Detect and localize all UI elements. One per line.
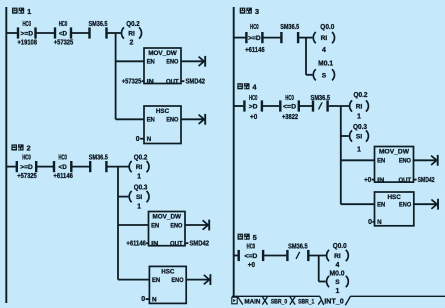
svg-text:+19108: +19108 — [18, 40, 38, 47]
svg-text:M0.0: M0.0 — [330, 270, 345, 277]
svg-text:M0.1: M0.1 — [318, 60, 333, 67]
svg-text:HC0: HC0 — [247, 244, 256, 251]
svg-text:SI: SI — [136, 194, 142, 201]
net2 wire to HSC EN — [118, 279, 149, 281]
net5 wire c1-c2 — [264, 255, 286, 257]
net1 branch vertical — [115, 33, 117, 119]
net4 wire to MOV_DW EN — [341, 159, 375, 161]
svg-text:EN: EN — [152, 277, 160, 284]
net2 wire to SI coil — [118, 196, 128, 198]
net1 wire c1-c2 — [37, 32, 55, 34]
coil Q0.3 (SI) 1 (net2) — [129, 184, 149, 210]
svg-text:IN: IN — [147, 79, 154, 86]
svg-text:1: 1 — [357, 147, 361, 154]
tab divider MAIN/SBR_0 — [262, 297, 267, 305]
contact HC0 <D +61146 (net2) — [53, 154, 73, 180]
svg-text:1: 1 — [335, 288, 339, 295]
svg-text:>=D: >=D — [248, 35, 261, 42]
svg-text:SMD42: SMD42 — [186, 78, 206, 85]
svg-text:HC0: HC0 — [249, 95, 258, 102]
svg-text:ENO: ENO — [166, 117, 178, 124]
net4 wire c2-c3 — [300, 105, 312, 107]
svg-text:+0: +0 — [250, 114, 257, 121]
net3 wire c2-coil — [299, 37, 312, 39]
coil M0.0 (S) 1 (net5) — [327, 276, 349, 295]
contact SM36.5 (net1) — [89, 21, 108, 39]
tab divider SBR_1/INT_0 — [318, 296, 324, 305]
jump arrow net1 MOV_DW ENO — [181, 56, 205, 67]
svg-text:SM36.5: SM36.5 — [288, 244, 308, 251]
contact HC0 >D +0 (net4) — [244, 95, 262, 121]
svg-text:Q0.0: Q0.0 — [333, 243, 347, 250]
svg-text:EN: EN — [147, 59, 155, 66]
net4 wire c1-c2 — [263, 105, 279, 107]
left power rail — [5, 7, 7, 303]
svg-text:S: S — [322, 72, 327, 79]
svg-text:2: 2 — [27, 144, 31, 153]
net1 wire to HSC EN — [116, 118, 144, 120]
contact HC0 >=D +19108 (net1) — [18, 21, 38, 47]
coil M0.1 (S) (net3) — [313, 69, 334, 80]
svg-text:0: 0 — [368, 219, 372, 226]
svg-text:EN: EN — [377, 158, 385, 165]
svg-text:1: 1 — [137, 203, 141, 210]
net4 branch vertical — [340, 106, 342, 204]
svg-text:ENO: ENO — [399, 202, 411, 209]
net1 wire to MOV_DW EN — [116, 60, 144, 62]
svg-text:N: N — [147, 136, 152, 143]
svg-text:RI: RI — [356, 104, 363, 111]
svg-text:MAIN: MAIN — [244, 299, 260, 306]
contact SM36.5 (net2) — [89, 154, 108, 172]
net1 wire c3-coil — [108, 32, 121, 34]
jump arrow net4 MOV_DW ENO — [414, 155, 438, 166]
net5 wire to S coil — [319, 281, 326, 283]
box HSC (net2) — [149, 266, 186, 303]
svg-text:IN: IN — [377, 177, 384, 184]
net2 wire c1-c2 — [37, 166, 53, 168]
svg-text:+61146: +61146 — [126, 240, 146, 247]
contact HC0 >=D +57325 (net2) — [17, 154, 37, 180]
svg-text:1: 1 — [27, 7, 31, 16]
svg-text:<D: <D — [59, 164, 67, 171]
network 5 label 网络 5 — [238, 233, 257, 242]
net3 wire rail to contact1 — [235, 37, 246, 39]
svg-text:SM36.5: SM36.5 — [89, 21, 108, 28]
svg-text:ENO: ENO — [166, 59, 178, 66]
svg-text:MOV_DW: MOV_DW — [148, 50, 177, 57]
svg-text:OUT: OUT — [166, 79, 179, 86]
svg-text:INT_0: INT_0 — [324, 296, 344, 305]
box MOV_DW (net1) — [144, 48, 181, 84]
svg-text:EN: EN — [151, 222, 159, 229]
network 4 label 网络 4 — [237, 82, 257, 91]
svg-text:>=D: >=D — [21, 31, 34, 38]
net4 MOV_DW OUT value SMD42 — [414, 179, 417, 181]
svg-text:+3822: +3822 — [282, 114, 298, 121]
svg-text:EN: EN — [147, 117, 155, 124]
svg-text:OUT: OUT — [399, 177, 412, 184]
svg-text:<=D: <=D — [283, 104, 296, 111]
net2 wire rail to contact1 — [7, 166, 16, 168]
net4 wire to HSC EN — [341, 203, 375, 205]
svg-text:4: 4 — [335, 262, 339, 269]
contact HC0 <=D +0 (net5) — [239, 244, 263, 269]
coil Q0.3 (SI) 1 (net4) — [350, 130, 369, 141]
svg-text:S: S — [335, 279, 340, 286]
svg-text:HC0: HC0 — [59, 21, 68, 28]
coil Q0.0 (RI) 4 (net3) — [313, 24, 334, 54]
tab bar top line left segment — [232, 295, 320, 297]
svg-text:SM36.5: SM36.5 — [89, 154, 108, 161]
jump arrow net2 HSC ENO — [186, 274, 210, 285]
box HSC (net4) — [375, 192, 414, 226]
svg-text:ENO: ENO — [399, 158, 411, 165]
svg-text:RI: RI — [321, 35, 328, 42]
svg-text:0: 0 — [141, 296, 145, 303]
svg-text:ENO: ENO — [170, 222, 182, 229]
svg-text:Q0.2: Q0.2 — [354, 92, 368, 99]
net3 branch vertical — [305, 38, 307, 75]
svg-text:RI: RI — [136, 164, 143, 171]
contact SM36.5 (net3) — [280, 24, 299, 43]
net5 branch vertical — [318, 256, 320, 282]
svg-text:SM36.5: SM36.5 — [280, 24, 299, 31]
svg-text:+57325: +57325 — [17, 173, 37, 180]
svg-text:Q0.3: Q0.3 — [353, 124, 367, 131]
box HSC (net1) — [144, 106, 181, 144]
svg-text:+61146: +61146 — [53, 173, 73, 180]
svg-text:HSC: HSC — [388, 194, 401, 201]
svg-text:EN: EN — [377, 202, 385, 209]
svg-text:SI: SI — [356, 134, 362, 141]
contact SM36.5 / NC (net4) — [311, 95, 331, 112]
svg-text:HC0: HC0 — [285, 95, 294, 102]
net3 wire to S coil — [306, 74, 312, 76]
svg-text:SBR_1: SBR_1 — [298, 299, 314, 306]
svg-text:Q0.2: Q0.2 — [126, 21, 140, 28]
right power rail — [233, 7, 235, 296]
svg-text:4: 4 — [322, 47, 326, 54]
svg-text:Q0.0: Q0.0 — [320, 24, 334, 31]
svg-text:Q0.2: Q0.2 — [134, 154, 148, 161]
box MOV_DW (net2) — [149, 212, 186, 246]
svg-text:1: 1 — [137, 173, 141, 180]
svg-text:<=D: <=D — [244, 253, 257, 260]
net2 branch vertical — [117, 167, 119, 280]
network 3 label 网络 3 — [240, 7, 259, 16]
svg-text:RI: RI — [334, 253, 341, 260]
net1 wire c2-c3 — [72, 32, 89, 34]
svg-text:RI: RI — [128, 31, 135, 38]
tab INT_0 right edge — [345, 296, 350, 305]
net5 wire c2-coil — [309, 255, 326, 257]
svg-text:3: 3 — [255, 7, 259, 16]
svg-text:>=D: >=D — [20, 164, 33, 171]
svg-text:5: 5 — [253, 233, 257, 242]
svg-text:HSC: HSC — [156, 108, 169, 115]
svg-text:HC0: HC0 — [58, 154, 67, 161]
net2 MOV_DW OUT value SMD42 — [185, 242, 188, 244]
svg-text:1: 1 — [357, 113, 361, 120]
jump arrow net1 HSC ENO — [181, 114, 205, 125]
svg-text:+57325: +57325 — [54, 40, 74, 47]
svg-text:ENO: ENO — [171, 277, 183, 284]
svg-text:2: 2 — [130, 40, 134, 47]
box MOV_DW (net4) — [375, 147, 414, 183]
svg-text:HC0: HC0 — [250, 24, 259, 31]
coil Q0.2 (RI) 1 (net2) — [129, 154, 149, 180]
net1 wire rail to contact1 — [7, 32, 17, 34]
net2 wire c2-c3 — [72, 166, 89, 168]
svg-text:OUT: OUT — [170, 241, 183, 248]
coil Q0.0 (RI) 4 (net5) — [327, 243, 349, 269]
net3 wire c1-c2 — [263, 37, 280, 39]
svg-text:SM36.5: SM36.5 — [311, 95, 331, 102]
contact HC0 <D +57325 (net1) — [54, 21, 74, 47]
tab MAIN left edge — [238, 297, 243, 305]
svg-text:<D: <D — [59, 31, 67, 38]
jump arrow net2 MOV_DW ENO — [185, 220, 209, 231]
svg-text:+0: +0 — [364, 177, 371, 184]
svg-text:N: N — [152, 297, 157, 304]
svg-text:+57325: +57325 — [122, 78, 142, 85]
svg-text:>D: >D — [249, 104, 258, 111]
net4 wire to SI coil — [341, 135, 349, 137]
network 2 label 网络 2 — [11, 144, 30, 153]
svg-text:HC0: HC0 — [22, 154, 31, 161]
contact SM36.5 / NC (net5) — [287, 244, 308, 261]
svg-text:HC0: HC0 — [22, 21, 31, 28]
svg-text:Q0.3: Q0.3 — [134, 184, 148, 191]
svg-text:N: N — [377, 219, 382, 226]
tab bar top line right segment — [350, 295, 445, 297]
net5 wire rail to contact1 — [235, 255, 238, 257]
net4 wire c3-coil — [329, 105, 349, 107]
svg-text:MOV_DW: MOV_DW — [379, 149, 410, 156]
svg-text:+61146: +61146 — [245, 47, 265, 54]
net2 wire to MOV_DW EN — [118, 224, 149, 226]
svg-text:0: 0 — [136, 136, 140, 143]
net1 MOV_DW OUT value SMD42 — [181, 80, 184, 82]
tab divider SBR_0/SBR_1 — [290, 297, 295, 305]
network 1 label 网络 1 — [12, 7, 31, 16]
contact HC0 >=D +61146 (net3) — [245, 24, 265, 54]
svg-text:HSC: HSC — [161, 268, 174, 275]
svg-text:MOV_DW: MOV_DW — [152, 214, 181, 221]
net4 wire rail to contact1 — [235, 105, 244, 107]
svg-text:SBR_0: SBR_0 — [271, 299, 288, 306]
svg-text:SMD42: SMD42 — [190, 240, 210, 247]
svg-text:SMD42: SMD42 — [418, 177, 435, 184]
net2 wire c3-coil — [107, 166, 128, 168]
coil Q0.2 (RI) 2 (net1) — [121, 21, 141, 47]
contact HC0 <=D +3822 (net4) — [280, 95, 299, 121]
coil Q0.2 (RI) 1 (net4) — [350, 92, 369, 121]
svg-text:IN: IN — [151, 241, 158, 248]
svg-text:+0: +0 — [248, 262, 255, 269]
jump arrow net4 HSC ENO — [414, 199, 438, 210]
tab scroll button — [232, 297, 237, 304]
